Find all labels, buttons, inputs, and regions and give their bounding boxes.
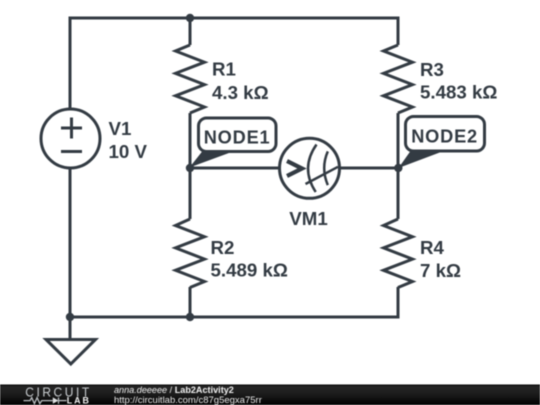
junction bottom left — [66, 313, 74, 321]
resistor R2 — [176, 219, 205, 288]
wire R1 top lead — [189, 18, 192, 45]
svg-text:http://circuitlab.com/c87g5egx: http://circuitlab.com/c87g5egxa75rr — [114, 395, 262, 405]
resistor R1 — [176, 45, 205, 113]
junction top middle — [186, 14, 194, 22]
svg-text:R4: R4 — [420, 237, 444, 258]
svg-text:LAB: LAB — [67, 395, 91, 405]
wire ground stub — [69, 317, 72, 340]
node NODE2 flag — [399, 117, 485, 169]
svg-text:4.3 kΩ: 4.3 kΩ — [212, 82, 269, 103]
wire R3 bottom lead — [397, 113, 400, 168]
ground — [46, 340, 96, 365]
footer bar — [0, 385, 540, 405]
wire V1 to left bus — [69, 167, 72, 318]
wire R1 bottom lead — [189, 113, 192, 168]
resistor R4 — [384, 219, 413, 288]
CircuitLab logo glyph resistor and diode — [24, 397, 67, 403]
svg-text:R3: R3 — [420, 59, 444, 80]
wire bottom bus — [70, 287, 398, 317]
svg-text:10 V: 10 V — [109, 141, 148, 162]
svg-text:5.483 kΩ: 5.483 kΩ — [420, 82, 497, 103]
node NODE1 junction — [186, 164, 194, 172]
node NODE2 junction — [394, 164, 402, 172]
svg-text:VM1: VM1 — [289, 208, 327, 229]
svg-text:R1: R1 — [212, 59, 236, 80]
svg-text:anna.deeeee / Lab2Activity2: anna.deeeee / Lab2Activity2 — [114, 385, 234, 395]
wire R2 bottom lead — [189, 287, 192, 317]
wire node1 to VM1 — [190, 167, 280, 170]
svg-text:5.489 kΩ: 5.489 kΩ — [211, 260, 288, 281]
node NODE1 flag — [190, 118, 277, 168]
junction bottom middle — [186, 313, 194, 321]
wire top bus — [70, 18, 398, 111]
svg-text:7 kΩ: 7 kΩ — [420, 260, 461, 281]
svg-text:NODE2: NODE2 — [411, 127, 478, 147]
resistor R3 — [384, 45, 413, 113]
svg-text:NODE1: NODE1 — [204, 127, 271, 147]
svg-text:R2: R2 — [211, 237, 235, 258]
wire VM1 to node2 — [340, 167, 399, 170]
voltage source V1 — [41, 109, 100, 168]
wire R2 top lead — [189, 168, 192, 219]
voltmeter VM1 — [280, 138, 340, 198]
wire R4 top lead — [397, 168, 400, 219]
svg-text:V1: V1 — [109, 118, 132, 139]
